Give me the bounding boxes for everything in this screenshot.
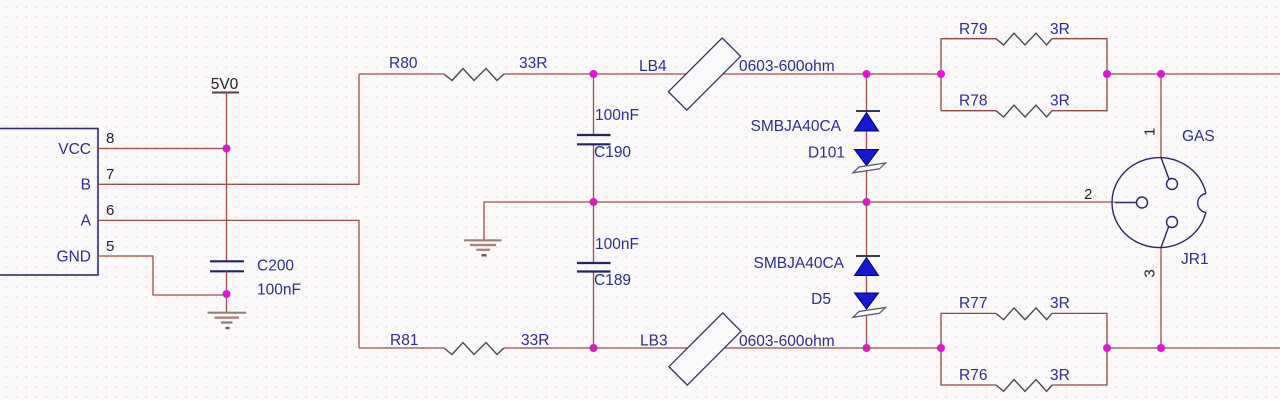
svg-text:3R: 3R <box>1050 367 1070 384</box>
ground symbol under C200 <box>208 313 247 328</box>
svg-text:33R: 33R <box>519 55 547 72</box>
resistor R76 zigzag <box>996 380 1052 392</box>
node middle wire / D101-D5 <box>863 198 871 206</box>
svg-text:R78: R78 <box>959 93 987 110</box>
wire pin8 VCC to 5V0 rail <box>98 148 227 150</box>
wire pin6 A to bottom branch <box>98 220 359 348</box>
node middle wire / C190-C189 <box>590 198 598 206</box>
svg-text:R80: R80 <box>389 55 418 72</box>
svg-text:8: 8 <box>106 130 114 147</box>
svg-text:C190: C190 <box>594 144 631 161</box>
parallel pair R77/R76 loop frame <box>941 313 1107 385</box>
svg-text:2: 2 <box>1084 186 1092 203</box>
svg-text:1: 1 <box>1142 128 1159 136</box>
capacitor C200 <box>210 261 244 271</box>
node top wire / D101 <box>863 70 871 78</box>
parallel pair R79/R78 loop frame <box>941 39 1107 111</box>
wire 5V0 rail down to C200 <box>226 93 228 262</box>
ground symbol (middle) <box>464 240 502 255</box>
svg-text:100nF: 100nF <box>257 282 301 299</box>
wire pin5 GND to C200 bottom <box>98 256 227 295</box>
svg-text:3R: 3R <box>1050 93 1070 110</box>
svg-text:LB4: LB4 <box>639 58 667 75</box>
node left of R77/R76 <box>937 344 945 352</box>
wire ground riser <box>483 202 485 240</box>
svg-text:7: 7 <box>106 166 114 183</box>
svg-text:GND: GND <box>57 249 91 266</box>
svg-text:R76: R76 <box>959 367 987 384</box>
wire D101 column <box>866 74 868 202</box>
resistor R81 zigzag <box>444 343 504 355</box>
svg-text:JR1: JR1 <box>1181 251 1209 268</box>
svg-text:R81: R81 <box>390 332 418 349</box>
node junction at C200 bottom <box>223 290 231 298</box>
svg-text:5V0: 5V0 <box>211 76 239 93</box>
ferrite bead LB4 (tilted) <box>668 38 740 110</box>
svg-text:100nF: 100nF <box>595 236 639 253</box>
svg-text:VCC: VCC <box>58 141 91 158</box>
wire connector pin3 rise <box>1160 248 1162 348</box>
IC box (bus transceiver, left edge off-canvas) <box>0 129 98 276</box>
svg-text:6: 6 <box>106 202 114 219</box>
node right of R79/R78 <box>1103 70 1111 78</box>
svg-text:C189: C189 <box>594 272 631 289</box>
wire C200 bottom to junction <box>226 271 228 312</box>
node left of R79/R78 <box>937 70 945 78</box>
wire top branch y=74 <box>359 73 1280 75</box>
wire middle branch y=202 (A/B common to connector pin2) <box>484 201 1115 203</box>
wire pin7 B to top branch <box>98 74 359 184</box>
resistor R80 zigzag <box>444 69 504 81</box>
svg-text:GAS: GAS <box>1182 128 1215 145</box>
resistor R79 zigzag <box>996 33 1052 45</box>
svg-text:B: B <box>81 177 91 194</box>
node right of R77/R76 <box>1103 344 1111 352</box>
wire connector pin1 drop <box>1160 74 1162 157</box>
svg-text:33R: 33R <box>521 332 549 349</box>
node VCC / 5V0 rail <box>223 145 231 153</box>
svg-text:100nF: 100nF <box>595 107 639 124</box>
connector JR1 circular body with key notch <box>1112 158 1206 248</box>
wire bottom branch y=348 <box>359 347 1280 349</box>
resistor R78 zigzag <box>996 105 1052 117</box>
node bottom wire / C189 <box>590 344 598 352</box>
capacitor C189 <box>577 263 611 272</box>
svg-text:C200: C200 <box>257 258 294 275</box>
svg-text:SMBJA40CA: SMBJA40CA <box>751 118 842 135</box>
svg-text:D101: D101 <box>808 145 845 162</box>
capacitor C190 <box>577 135 611 144</box>
resistor R77 zigzag <box>996 308 1052 320</box>
node top wire / connector pin1 <box>1157 70 1165 78</box>
ferrite bead LB3 (tilted) <box>669 313 741 385</box>
svg-text:D5: D5 <box>811 291 831 308</box>
svg-text:3R: 3R <box>1050 295 1070 312</box>
svg-text:0603-600ohm: 0603-600ohm <box>739 333 835 350</box>
TVS diode D5 (bidirectional) <box>853 256 886 317</box>
svg-text:R79: R79 <box>959 21 987 38</box>
svg-text:3: 3 <box>1142 269 1159 277</box>
wire C190/C189 column <box>593 74 595 348</box>
svg-text:R77: R77 <box>959 295 987 312</box>
svg-text:3R: 3R <box>1050 21 1070 38</box>
svg-text:LB3: LB3 <box>640 333 668 350</box>
node bottom wire / D5 <box>863 344 871 352</box>
svg-text:0603-600ohm: 0603-600ohm <box>739 58 835 75</box>
node top wire / C190 <box>590 70 598 78</box>
TVS diode D101 (bidirectional) <box>853 111 886 173</box>
svg-text:5: 5 <box>106 238 114 255</box>
power port 5V0 <box>211 76 239 93</box>
node bottom wire / connector pin3 <box>1157 344 1165 352</box>
wire D5 column <box>866 202 868 348</box>
svg-text:A: A <box>81 213 92 230</box>
svg-text:SMBJA40CA: SMBJA40CA <box>754 255 845 272</box>
